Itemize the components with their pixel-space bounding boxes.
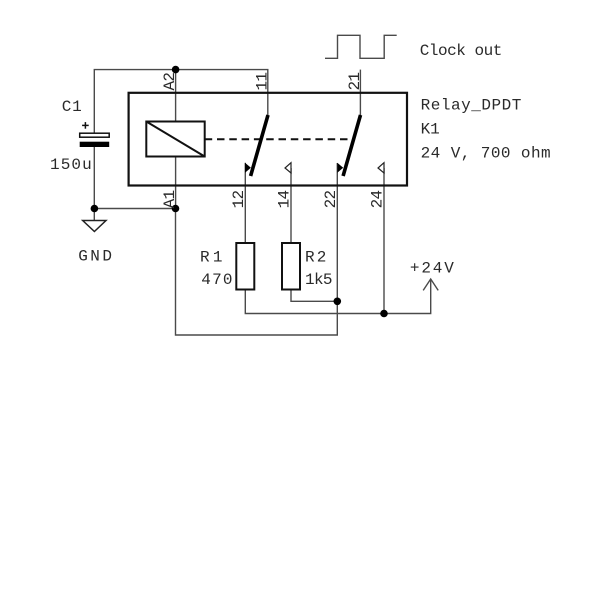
svg-text:A2: A2 — [161, 72, 179, 91]
svg-text:24: 24 — [369, 190, 387, 209]
svg-text:24 V, 700 ohm: 24 V, 700 ohm — [421, 145, 551, 163]
svg-text:12: 12 — [230, 190, 248, 209]
svg-text:GND: GND — [78, 248, 112, 266]
svg-text:22: 22 — [322, 190, 340, 209]
svg-text:470: 470 — [201, 271, 232, 289]
svg-text:C1: C1 — [62, 98, 82, 116]
svg-text:Relay_DPDT: Relay_DPDT — [421, 97, 522, 115]
svg-text:K1: K1 — [421, 121, 440, 139]
svg-text:14: 14 — [276, 190, 294, 209]
svg-text:1k5: 1k5 — [305, 271, 333, 289]
svg-text:21: 21 — [346, 72, 364, 91]
svg-text:+24V: +24V — [410, 260, 454, 278]
svg-text:A1: A1 — [161, 190, 179, 209]
svg-text:11: 11 — [254, 72, 272, 91]
svg-text:150u: 150u — [50, 156, 92, 174]
svg-text:Clock out: Clock out — [420, 42, 503, 60]
